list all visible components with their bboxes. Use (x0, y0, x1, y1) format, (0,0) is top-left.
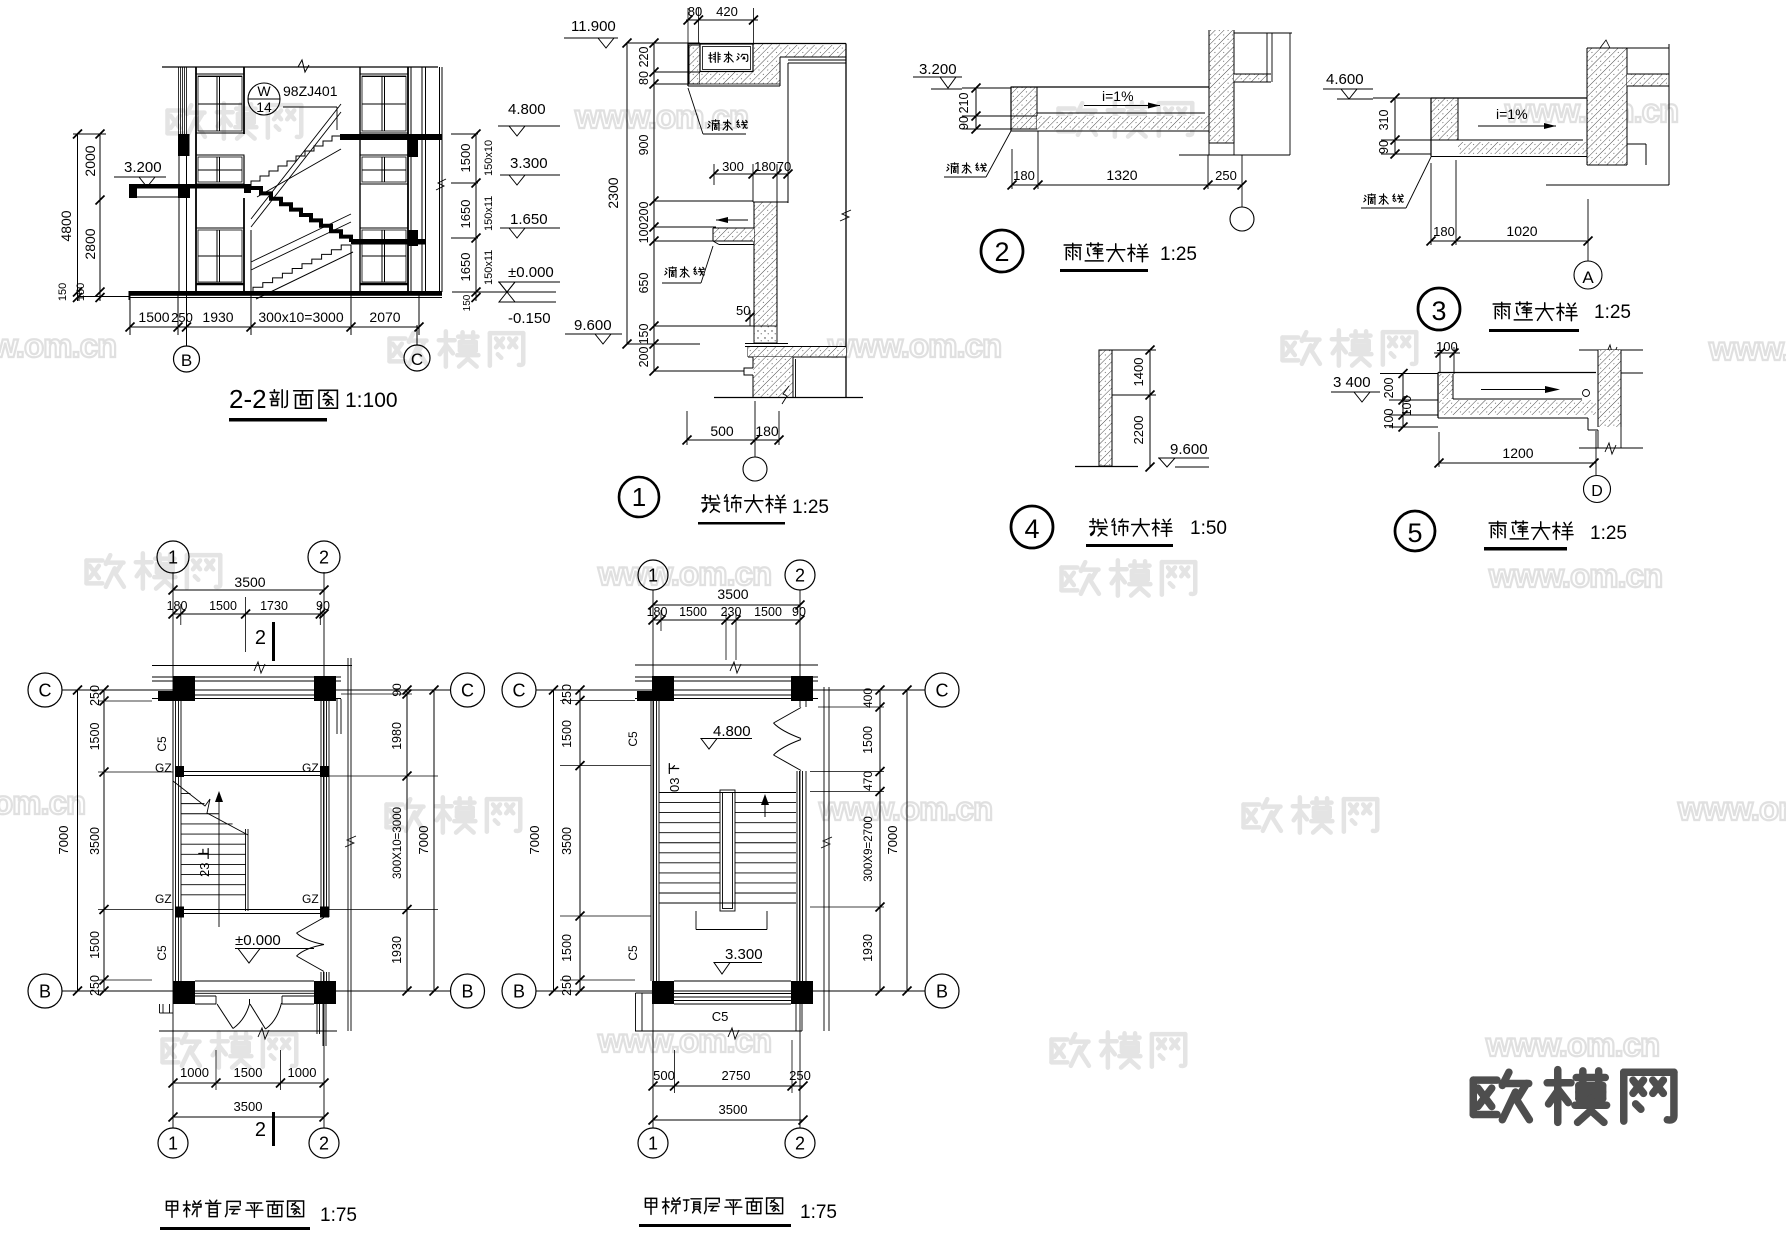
svg-text:3500: 3500 (234, 574, 265, 590)
svg-text:C: C (411, 350, 423, 369)
svg-text:50: 50 (736, 303, 750, 318)
svg-text:80: 80 (637, 71, 651, 85)
svg-text:150: 150 (462, 294, 473, 311)
svg-text:470: 470 (861, 771, 875, 791)
svg-text:90: 90 (957, 116, 971, 130)
svg-text:1: 1 (168, 1133, 178, 1153)
svg-text:200: 200 (637, 202, 651, 223)
svg-text:1000: 1000 (180, 1065, 209, 1080)
svg-text:150x11: 150x11 (483, 196, 495, 231)
svg-text:2: 2 (795, 565, 805, 585)
svg-text:1: 1 (648, 1133, 658, 1153)
svg-text:3.200: 3.200 (919, 61, 957, 78)
svg-text:2: 2 (319, 547, 329, 567)
svg-text:180: 180 (1433, 224, 1455, 239)
svg-text:1500: 1500 (861, 726, 875, 754)
svg-text:GZ: GZ (302, 892, 319, 906)
svg-text:±0.000: ±0.000 (235, 932, 281, 949)
svg-text:5: 5 (1407, 518, 1422, 548)
svg-text:www.om.cn: www.om.cn (1708, 330, 1786, 367)
svg-text:1020: 1020 (1506, 223, 1537, 239)
svg-text:180: 180 (754, 159, 776, 174)
svg-text:14: 14 (256, 99, 272, 115)
svg-text:2: 2 (994, 237, 1009, 267)
svg-text:C: C (39, 680, 52, 700)
svg-text:300: 300 (722, 159, 744, 174)
svg-text:1:25: 1:25 (1590, 523, 1627, 544)
svg-text:C5: C5 (155, 736, 169, 752)
svg-text:7000: 7000 (885, 826, 900, 855)
svg-text:C: C (513, 680, 526, 700)
svg-text:www.om.cn: www.om.cn (0, 784, 85, 821)
svg-text:250: 250 (560, 975, 574, 996)
svg-text:98ZJ401: 98ZJ401 (283, 83, 338, 99)
svg-text:1930: 1930 (861, 934, 875, 962)
svg-text:1500: 1500 (138, 309, 169, 325)
svg-text:7000: 7000 (416, 826, 431, 855)
svg-text:250: 250 (88, 975, 102, 996)
svg-text:9.600: 9.600 (574, 317, 612, 334)
svg-text:650: 650 (637, 273, 651, 294)
svg-text:4: 4 (1024, 514, 1039, 544)
svg-text:www.om.cn: www.om.cn (827, 327, 1001, 364)
svg-text:200: 200 (637, 347, 651, 368)
svg-text:1930: 1930 (202, 309, 233, 325)
svg-text:3: 3 (1431, 296, 1446, 326)
svg-text:2070: 2070 (369, 309, 400, 325)
svg-text:1:25: 1:25 (1160, 244, 1197, 265)
svg-text:C5: C5 (155, 945, 169, 961)
svg-text:W: W (257, 83, 271, 99)
svg-text:2000: 2000 (82, 145, 98, 176)
svg-text:1500: 1500 (560, 934, 574, 962)
svg-text:420: 420 (716, 4, 738, 19)
svg-text:2: 2 (795, 1133, 805, 1153)
svg-text:1400: 1400 (1131, 358, 1146, 387)
svg-text:220: 220 (637, 47, 651, 68)
svg-text:100: 100 (1382, 409, 1396, 430)
svg-text:300X9=2700: 300X9=2700 (863, 816, 875, 882)
svg-text:1: 1 (632, 482, 646, 512)
svg-text:C5: C5 (712, 1009, 729, 1024)
svg-text:1730: 1730 (260, 599, 288, 613)
svg-text:300x10=3000: 300x10=3000 (258, 309, 343, 325)
svg-text:1200: 1200 (1502, 445, 1533, 461)
svg-text:03: 03 (667, 778, 682, 792)
svg-text:90: 90 (390, 683, 404, 697)
svg-text:1500: 1500 (458, 144, 473, 173)
svg-text:4800: 4800 (58, 210, 74, 241)
svg-text:±0.000: ±0.000 (508, 264, 554, 281)
svg-text:2300: 2300 (605, 177, 621, 208)
svg-text:B: B (181, 351, 192, 370)
svg-text:250: 250 (560, 684, 574, 705)
svg-text:GZ: GZ (155, 761, 172, 775)
svg-text:23: 23 (197, 863, 212, 877)
svg-text:3500: 3500 (560, 827, 574, 855)
svg-text:7000: 7000 (56, 826, 71, 855)
svg-text:C5: C5 (626, 945, 640, 961)
svg-text:1500: 1500 (234, 1065, 263, 1080)
svg-text:200: 200 (1382, 378, 1396, 399)
svg-text:80: 80 (688, 4, 702, 19)
svg-text:70: 70 (777, 159, 791, 174)
svg-text:www.om.cn: www.om.cn (818, 790, 992, 827)
svg-text:150x10: 150x10 (483, 140, 495, 176)
svg-text:180: 180 (647, 605, 668, 619)
svg-text:300X10=3000: 300X10=3000 (392, 807, 404, 879)
svg-text:4.600: 4.600 (1326, 71, 1364, 88)
svg-text:9.600: 9.600 (1170, 441, 1208, 458)
svg-text:www.om.cn: www.om.cn (1485, 1026, 1659, 1063)
svg-text:90: 90 (792, 605, 806, 619)
svg-text:A: A (1582, 268, 1594, 287)
svg-text:2-2: 2-2 (229, 384, 267, 414)
svg-text:B: B (936, 981, 948, 1001)
svg-text:1500: 1500 (209, 599, 237, 613)
svg-text:100: 100 (1400, 396, 1414, 417)
svg-text:1:100: 1:100 (345, 389, 398, 412)
svg-text:C5: C5 (626, 731, 640, 747)
svg-text:2: 2 (255, 627, 266, 649)
svg-text:GZ: GZ (302, 761, 319, 775)
svg-text:3 400: 3 400 (1333, 374, 1371, 391)
svg-text:2200: 2200 (1131, 416, 1146, 445)
svg-text:250: 250 (1215, 168, 1237, 183)
svg-text:1320: 1320 (1106, 167, 1137, 183)
svg-text:1:75: 1:75 (800, 1202, 837, 1223)
svg-text:230: 230 (721, 605, 742, 619)
svg-text:www.om.cn: www.om.cn (1677, 790, 1786, 827)
svg-text:180: 180 (167, 599, 188, 613)
svg-text:100: 100 (637, 223, 651, 244)
svg-text:900: 900 (637, 135, 651, 156)
svg-text:i=1%: i=1% (1102, 88, 1134, 104)
svg-text:1.650: 1.650 (510, 211, 548, 228)
svg-text:B: B (513, 981, 525, 1001)
svg-text:-0.150: -0.150 (508, 310, 551, 327)
svg-text:250: 250 (88, 685, 102, 706)
svg-text:400: 400 (861, 688, 875, 708)
svg-text:1:75: 1:75 (320, 1205, 357, 1226)
svg-text:www.om.cn: www.om.cn (574, 98, 748, 135)
svg-text:210: 210 (957, 93, 971, 114)
svg-text:2: 2 (255, 1119, 266, 1141)
svg-text:150x11: 150x11 (483, 250, 495, 285)
svg-text:D: D (1591, 483, 1603, 500)
svg-text:150: 150 (57, 283, 69, 301)
svg-text:1500: 1500 (88, 723, 102, 751)
svg-text:www.om.cn: www.om.cn (597, 1022, 771, 1059)
svg-text:500: 500 (653, 1068, 675, 1083)
svg-text:250: 250 (171, 310, 193, 325)
svg-text:2800: 2800 (82, 228, 98, 259)
svg-text:2750: 2750 (722, 1068, 751, 1083)
svg-text:1650: 1650 (458, 253, 473, 282)
svg-text:1500: 1500 (679, 605, 707, 619)
svg-text:3500: 3500 (719, 1102, 748, 1117)
svg-text:1000: 1000 (288, 1065, 317, 1080)
svg-text:3.200: 3.200 (124, 159, 162, 176)
svg-text:1980: 1980 (390, 722, 404, 750)
svg-text:90: 90 (316, 599, 330, 613)
svg-text:90: 90 (1377, 140, 1391, 154)
svg-text:7000: 7000 (527, 826, 542, 855)
svg-text:1500: 1500 (754, 605, 782, 619)
svg-text:GZ: GZ (155, 892, 172, 906)
svg-text:3.300: 3.300 (510, 155, 548, 172)
svg-text:B: B (39, 981, 51, 1001)
svg-text:500: 500 (710, 423, 734, 439)
svg-text:1500: 1500 (88, 931, 102, 959)
svg-text:1500: 1500 (560, 720, 574, 748)
svg-text:2: 2 (319, 1133, 329, 1153)
svg-text:1930: 1930 (390, 936, 404, 964)
svg-text:i=1%: i=1% (1496, 106, 1528, 122)
svg-text:1:50: 1:50 (1190, 518, 1227, 539)
svg-text:www.om.cn: www.om.cn (1488, 557, 1662, 594)
svg-text:1: 1 (168, 547, 178, 567)
svg-text:B: B (461, 981, 473, 1001)
svg-text:www.om.cn: www.om.cn (0, 327, 116, 364)
svg-text:11.900: 11.900 (571, 18, 616, 35)
svg-text:4.800: 4.800 (508, 101, 546, 118)
svg-text:C: C (936, 680, 949, 700)
svg-text:1:25: 1:25 (792, 497, 829, 518)
svg-text:3.300: 3.300 (725, 946, 763, 963)
svg-text:150: 150 (637, 324, 651, 345)
svg-text:1:25: 1:25 (1594, 302, 1631, 323)
svg-text:180: 180 (1013, 168, 1035, 183)
svg-text:4.800: 4.800 (713, 723, 751, 740)
svg-text:310: 310 (1377, 110, 1391, 131)
svg-text:3500: 3500 (88, 827, 102, 855)
svg-text:180: 180 (755, 423, 779, 439)
svg-text:250: 250 (789, 1068, 811, 1083)
svg-text:1: 1 (648, 565, 658, 585)
svg-text:150: 150 (75, 283, 87, 301)
svg-text:C: C (461, 680, 474, 700)
svg-text:1650: 1650 (458, 200, 473, 229)
svg-text:3500: 3500 (717, 586, 748, 602)
svg-text:3500: 3500 (234, 1099, 263, 1114)
